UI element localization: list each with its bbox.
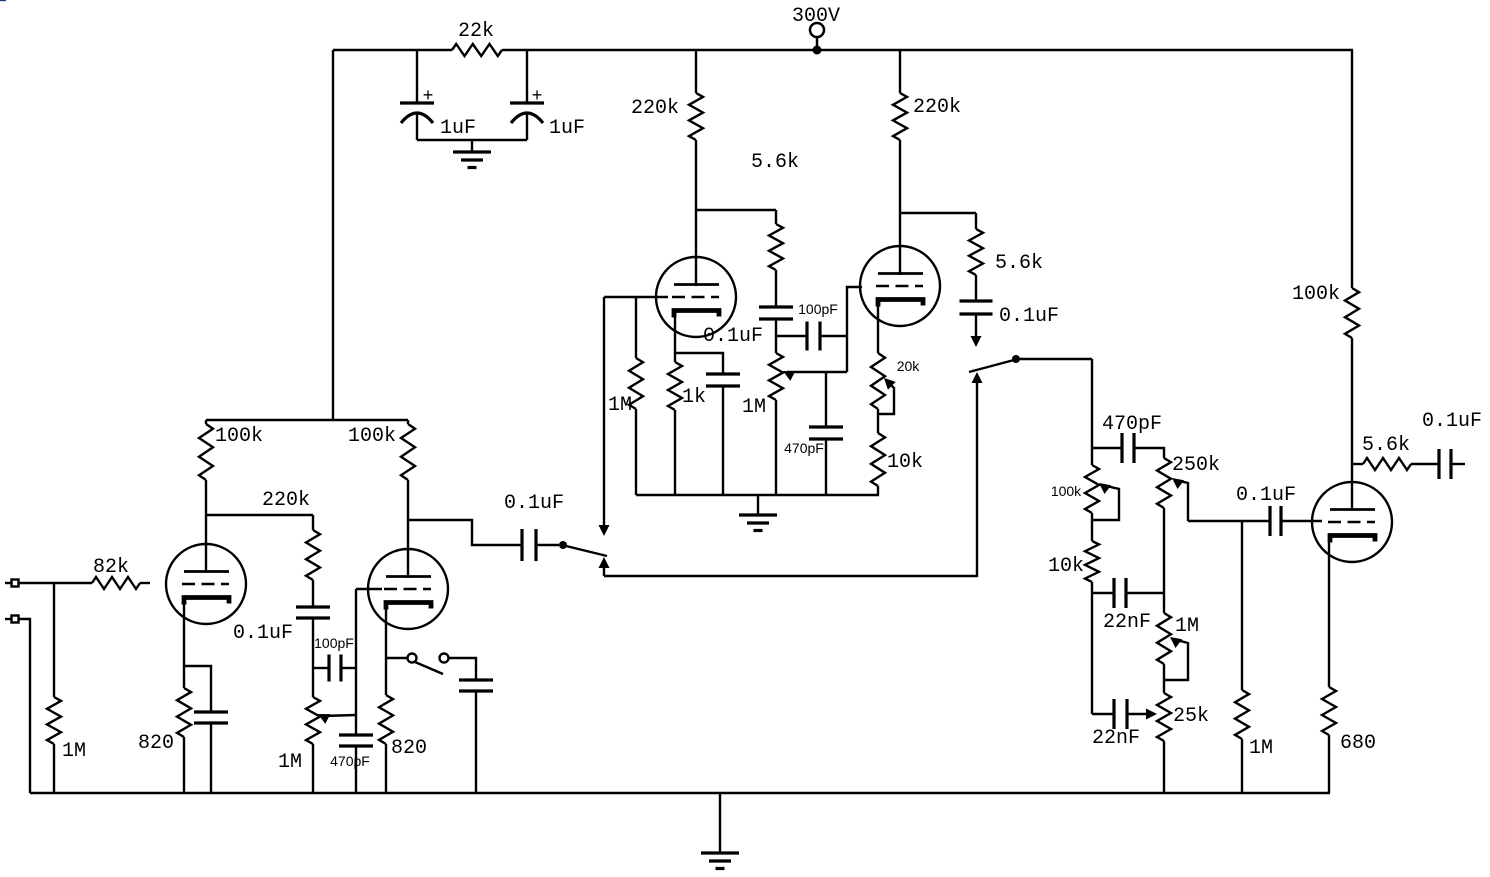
wire top B+ rail right segment [502,49,1353,51]
wire coupling cap to V5 grid [1281,520,1322,522]
wire 100k left top lead [205,420,207,424]
svg-text:680: 680 [1340,732,1376,755]
svg-text:100pF: 100pF [798,301,838,317]
wiper arrow of 250k pot [1172,478,1188,521]
wire 820 V1 to rail [183,737,185,793]
svg-text:82k: 82k [93,556,129,579]
wire 1M volume bottom to rail [312,744,314,793]
svg-text:1M: 1M [278,751,302,774]
capacitor 470pF tone [1102,413,1162,463]
svg-text:0.1uF: 0.1uF [1236,484,1296,507]
wire 470pF mid drop [825,372,827,427]
svg-text:1M: 1M [1249,737,1273,760]
wire wiper bus to V5 coupling cap [1188,520,1270,522]
resistor 100k plate load V2 [348,424,415,480]
svg-text:1M: 1M [62,740,86,763]
wire 100k pot to 10k [1091,513,1093,541]
svg-text:20k: 20k [897,358,921,374]
wiper arrow of 1M volume pot [318,714,356,724]
wire 470pF tone left lead [1092,447,1122,449]
resistor 5.6k right [969,229,1043,275]
wire 820 V2 to rail [385,744,387,793]
capacitor 470pF mid [784,427,843,456]
ground of middle bus [739,495,777,531]
resistor 82k grid stopper [92,556,140,589]
svg-text:100k: 100k [348,425,396,448]
svg-text:0.1uF: 0.1uF [1422,410,1482,433]
wire drop to C1 1uF [416,50,418,103]
wire right selector pole to tone network [1020,358,1092,360]
resistor 10k cathode V4 [871,433,923,486]
capacitor 0.1uF below 5.6k right [960,301,1060,328]
wire V2 grid node vertical [355,589,357,735]
svg-text:100k: 100k [1292,283,1340,306]
wire 5.6k output to cap [1411,463,1439,465]
resistor 820 cathode V2 [379,695,427,760]
svg-text:100k: 100k [1051,483,1082,499]
svg-text:220k: 220k [631,97,679,120]
svg-text:+: + [532,87,543,107]
svg-text:300V: 300V [792,5,840,28]
wire 22nF upper right lead [1126,592,1164,594]
wire 10k tone down to 22nF junction [1091,582,1093,714]
switch bright toggle [408,654,449,675]
wire 1M grid V5 drop [1241,521,1243,690]
resistor 1M grid V5 [1235,690,1273,760]
wire 470pF mid to bus [825,439,827,495]
resistor 22k [452,20,502,56]
wire C100pF right lead [820,335,847,337]
wire V5 cathode lead [1328,541,1330,687]
wire V2 cathode lead [385,609,387,695]
triode V5 [1312,482,1392,562]
wire 22nF upper left lead [1092,592,1114,594]
potentiometer 1M volume [278,697,320,774]
wire top B+ rail left segment [333,49,452,51]
wire V4 cathode lead [877,302,879,353]
wire 5.6k right top lead [975,213,977,229]
svg-text:10k: 10k [887,451,923,474]
svg-text:1M: 1M [742,396,766,419]
wire 5.6k left to C 0.1uF [775,270,777,307]
capacitor 470pF input stage [330,735,373,769]
wire 220k interstage top lead [312,515,314,530]
wire input terminal 2 to ground rail [18,619,30,793]
wire joining C1 and C2 bottoms [417,139,527,141]
svg-text:22nF: 22nF [1092,727,1140,750]
svg-text:22nF: 22nF [1103,611,1151,634]
wire V1 cathode to bypass cap [184,666,211,712]
resistor 5.6k left [751,151,799,270]
wire bottom ground rail [30,792,1330,794]
wire input node down to 1M [53,583,55,697]
wire C100pF left lead [776,335,807,337]
capacitor 0.1uF coupling V2 out [504,492,564,561]
wire branch V1 plate to 220k interstage [206,514,313,516]
arrow contact up right selector [972,372,983,383]
selector switch right pole [969,355,1020,372]
svg-text:0.1uF: 0.1uF [233,622,293,645]
wire 1M pot to 25k pot [1163,664,1165,693]
svg-text:820: 820 [391,737,427,760]
capacitor cathode bypass V2 [459,680,493,691]
svg-text:5.6k: 5.6k [751,151,799,174]
svg-text:220k: 220k [913,96,961,119]
wire 680 to rail [1328,735,1330,793]
wire output branch [1352,463,1363,465]
svg-text:1k: 1k [682,386,706,409]
wire 100pF left lead [313,667,329,669]
svg-text:1M: 1M [608,394,632,417]
resistor 820 cathode V1 [138,688,191,755]
selector switch left pole [559,541,607,556]
wire middle ground bus [636,494,879,496]
wire drop to C2 1uF [526,50,528,103]
svg-text:0.1uF: 0.1uF [504,492,564,515]
resistor 680 cathode V5 [1322,687,1376,755]
resistor 1M grid V3 [608,358,643,417]
wire 100k pair top rail [206,419,408,421]
wire 220k left to V3 plate [695,140,697,286]
wire bypass cap V3 to bus [722,386,724,495]
potentiometer 25k tone [1157,693,1209,741]
svg-text:1M: 1M [1175,615,1199,638]
wire input terminal 1 to 82k [18,582,92,584]
wire V2 grid lead [356,588,382,590]
svg-text:250k: 250k [1172,454,1220,477]
capacitor 0.1uF interstage [233,607,330,645]
wire V3 cathode to bypass cap [675,353,723,374]
wire bypass V1 to rail [210,723,212,793]
svg-text:5.6k: 5.6k [995,252,1043,275]
wiper arrow of 1M tone pot [1165,637,1188,680]
capacitor C1 1uF electrolytic [400,87,476,140]
potentiometer 100k tone [1051,465,1099,513]
wire output end [1451,463,1465,465]
wire crossover between selectors [604,381,977,576]
wire 5.6k right to C 0.1uF right [975,275,977,301]
wire 100k V5 to plate [1351,338,1353,510]
triode V2 [368,549,448,629]
wire 82k to V1 grid [140,582,150,584]
wire V1 cathode lead [183,604,185,688]
wire C2 bottom lead [526,114,528,140]
wiper arrow of 100k tone pot [1093,483,1119,520]
resistor 10k tone [1048,541,1099,582]
wire V2 cathode to switch [386,657,407,659]
wire tone drop [1091,359,1093,465]
wire 20k to 10k [877,409,879,433]
svg-text:220k: 220k [262,489,310,512]
resistor 5.6k output [1362,434,1411,470]
capacitor 100pF input stage [314,635,354,682]
wire right vertical B+ to 100k [1351,50,1353,288]
resistor 1k cathode V3 [668,362,706,410]
capacitor cathode bypass V1 [194,712,228,723]
resistor 220k interstage [262,489,320,580]
svg-text:470pF: 470pF [784,440,824,456]
resistor 100k plate load V1 [199,424,263,480]
wire 1M pot bottom to mid bus [775,400,777,495]
triode V3 [656,257,736,337]
wire coupling cap to left selector [536,544,559,546]
wire 1M input bottom to rail [53,744,55,793]
arrow end of V3 grid line at selector [599,297,610,536]
wire C0.1uF to 1M pot node [775,319,777,353]
capacitor 100pF mid [798,301,838,351]
resistor 100k plate load V5 [1292,283,1359,338]
input jack terminal 2 [5,616,19,623]
svg-text:820: 820 [138,732,174,755]
wire V3 cathode lead [674,313,676,362]
wire V2 plate branch to coupling cap [408,520,522,545]
svg-text:1uF: 1uF [440,117,476,140]
svg-text:+: + [423,87,434,107]
capacitor C2 1uF electrolytic [510,87,585,140]
svg-text:0.1uF: 0.1uF [999,305,1059,328]
svg-text:470pF: 470pF [330,753,370,769]
svg-text:10k: 10k [1048,555,1084,578]
wire 1M grid V3 bottom lead [635,409,637,495]
wire and arrow 22nF lower to 25k wiper [1127,709,1157,720]
wire 1M grid V3 top lead [635,297,637,358]
svg-text:100pF: 100pF [314,635,354,651]
resistor 220k left plate load [631,93,703,140]
wire 22nF lower left lead [1092,713,1114,715]
capacitor 0.1uF below 5.6k left [703,307,793,348]
potentiometer 1M tone [1157,613,1199,664]
wire 10k bottom to bus [877,486,879,495]
wire V3 grid line to left [604,296,668,298]
svg-text:22k: 22k [458,20,494,43]
wire 100k right to V2 plate [407,480,409,578]
wire branch V3 plate to 5.6k left [696,209,776,211]
svg-text:1uF: 1uF [549,117,585,140]
ground of bottom rail [701,793,739,869]
capacitor 0.1uF output [1422,410,1482,479]
wire coupling cap to 1M pot [312,618,314,697]
wire left vertical from B+ rail down to 100k pair [332,50,334,420]
wiper arrow of 20k pot [879,378,896,414]
power terminal 300V [792,5,840,55]
arrow contact from 0.1uF right down to selector [971,314,982,347]
wire 1k bottom lead [674,410,676,495]
wire 100k left to V1 plate [205,480,207,572]
wire switch to bypass cap V2 [449,658,476,680]
wire 470pF tone right lead [1134,448,1164,458]
wire branch V4 plate to 5.6k right [900,212,976,214]
resistor 220k right plate load [893,93,961,140]
wire drop from rail to R 220k right [899,50,901,93]
triode V1 [166,544,246,624]
arrow contact up left selector [599,557,610,576]
potentiometer 20k cathode V4 [871,353,920,409]
capacitor cathode bypass V3 [706,374,740,386]
wire drop from rail to R 220k left [695,50,697,93]
wire 220k to coupling cap [312,580,314,607]
svg-text:0.1uF: 0.1uF [703,325,763,348]
wire 1M grid V5 to rail [1241,739,1243,793]
svg-text:5.6k: 5.6k [1362,434,1410,457]
svg-text:25k: 25k [1173,705,1209,728]
wire C1 bottom lead [416,114,418,140]
wiper arrow of 1M pot mid [783,371,847,381]
input jack terminal 1 [5,580,19,587]
wire 100pF right lead [341,667,356,669]
capacitor 0.1uF V5 grid coupling [1236,484,1296,536]
resistor 1M input [47,697,86,763]
svg-text:100k: 100k [215,425,263,448]
wire bypass V2 to rail [475,691,477,793]
potentiometer 250k tone [1157,454,1220,508]
wire 25k to ground rail [1163,741,1165,793]
ground below 1uF caps [453,140,491,168]
wire 100k right top lead [407,420,409,424]
wire 5.6k left top lead [775,210,777,224]
svg-text:470pF: 470pF [1102,413,1162,436]
capacitor 22nF lower [1092,699,1140,750]
wire 470pF to rail [355,746,357,793]
potentiometer 1M mid [742,353,783,419]
triode V4 [860,246,940,326]
wire vertical feedback node to V4 grid [847,287,862,372]
capacitor 22nF upper [1103,578,1151,634]
wire 220k right to V4 plate [899,140,901,275]
wire 250k down to 1M pot [1163,508,1165,613]
